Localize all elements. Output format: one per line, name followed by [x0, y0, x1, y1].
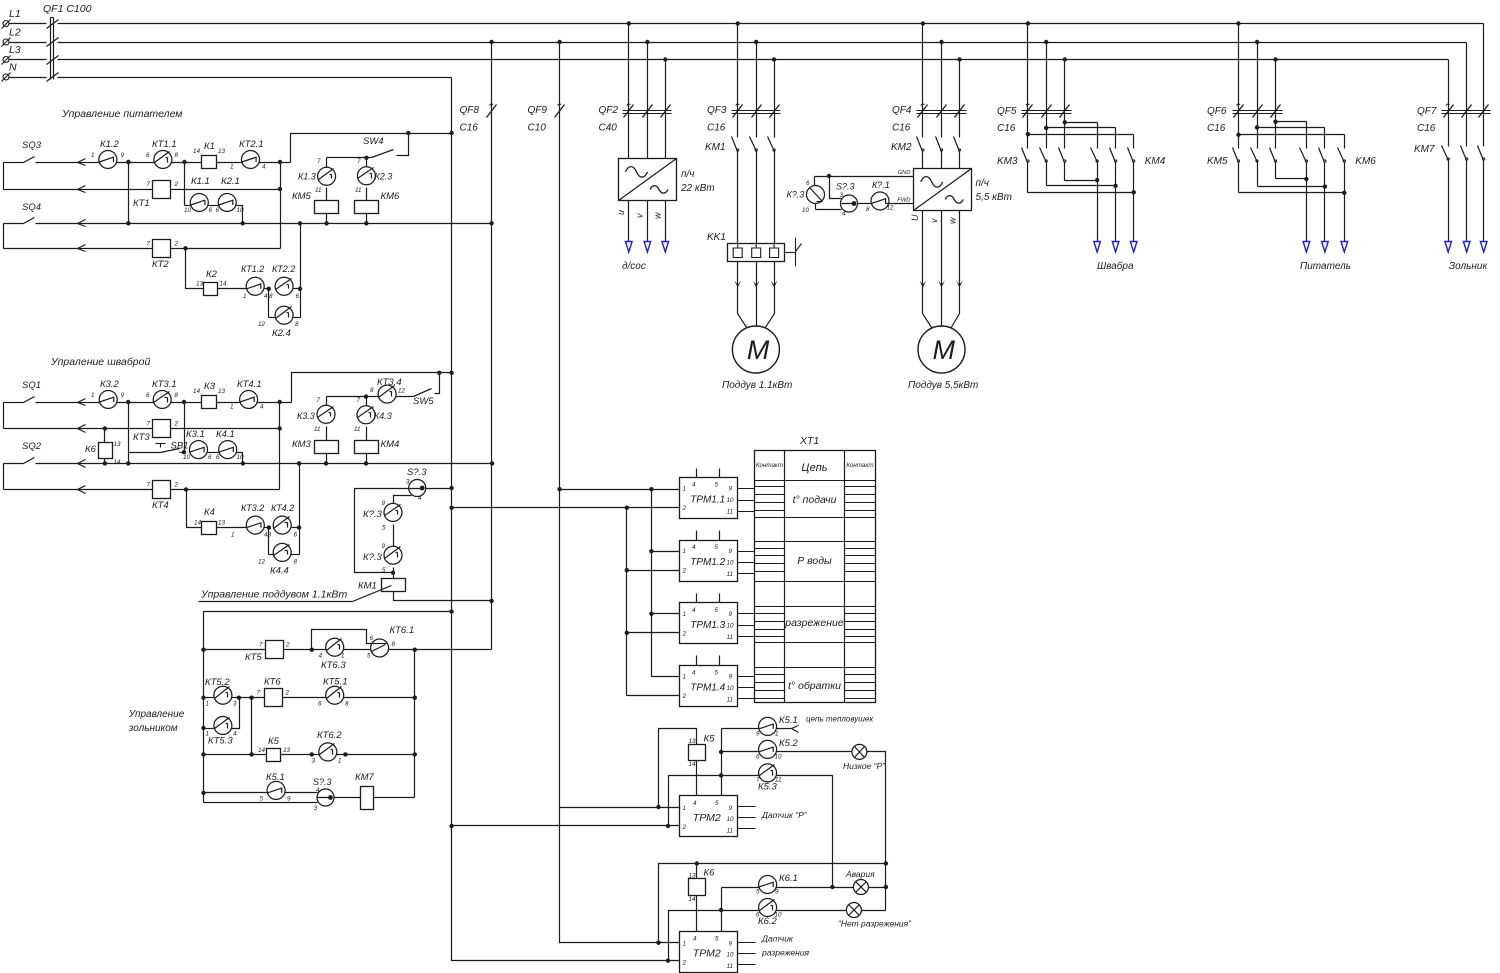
svg-text:L3: L3 [9, 44, 21, 56]
svg-text:6: 6 [756, 912, 760, 919]
svg-text:SQ3: SQ3 [22, 140, 42, 151]
svg-text:6: 6 [756, 754, 760, 761]
svg-text:7: 7 [317, 158, 321, 165]
svg-text:9: 9 [121, 392, 125, 399]
svg-text:ТРМ1.1: ТРМ1.1 [690, 495, 725, 506]
svg-text:10: 10 [727, 685, 735, 692]
svg-text:д/сос: д/сос [622, 261, 646, 272]
svg-text:9: 9 [729, 611, 733, 618]
svg-text:5: 5 [382, 567, 386, 574]
svg-text:10: 10 [727, 560, 735, 567]
svg-text:К4: К4 [204, 507, 215, 518]
svg-text:C16: C16 [1207, 123, 1226, 134]
svg-text:7: 7 [317, 397, 321, 404]
svg-text:13: 13 [218, 388, 226, 395]
svg-text:1: 1 [683, 941, 687, 948]
svg-text:12: 12 [258, 321, 266, 328]
svg-text:KM4: KM4 [1145, 156, 1166, 167]
svg-text:C40: C40 [599, 123, 618, 134]
svg-text:4: 4 [418, 495, 422, 502]
svg-text:SB1: SB1 [171, 441, 189, 452]
svg-text:КТ1.1: КТ1.1 [152, 139, 177, 150]
svg-text:8: 8 [269, 293, 273, 300]
svg-text:14: 14 [114, 459, 122, 466]
svg-text:6: 6 [296, 293, 300, 300]
svg-text:9: 9 [729, 548, 733, 555]
svg-text:11: 11 [354, 426, 361, 433]
svg-text:КТ4.1: КТ4.1 [237, 379, 262, 390]
svg-text:7: 7 [357, 158, 361, 165]
svg-text:Авария: Авария [845, 869, 875, 879]
svg-text:SQ1: SQ1 [22, 380, 41, 391]
svg-text:12: 12 [398, 388, 406, 395]
svg-text:13: 13 [196, 281, 204, 288]
svg-text:11: 11 [727, 634, 734, 641]
svg-text:1: 1 [683, 673, 687, 680]
svg-text:QF1 C100: QF1 C100 [43, 3, 92, 15]
svg-text:C16: C16 [892, 123, 911, 134]
svg-text:7: 7 [147, 482, 151, 489]
svg-text:6: 6 [146, 392, 150, 399]
svg-text:КМ5: КМ5 [292, 191, 312, 202]
svg-text:14: 14 [689, 896, 697, 903]
svg-text:9: 9 [382, 500, 386, 507]
svg-text:9: 9 [382, 543, 386, 550]
svg-text:QF6: QF6 [1207, 106, 1227, 117]
svg-text:C16: C16 [1417, 123, 1436, 134]
svg-text:KM6: KM6 [1355, 156, 1376, 167]
svg-text:К?.3: К?.3 [363, 509, 383, 520]
svg-text:4: 4 [264, 293, 268, 300]
svg-text:2: 2 [285, 642, 290, 649]
svg-text:разрежение: разрежение [784, 617, 844, 629]
svg-text:К2: К2 [206, 269, 218, 280]
svg-text:11: 11 [775, 777, 782, 784]
svg-text:KM3: KM3 [997, 156, 1018, 167]
svg-text:S?.3: S?.3 [407, 467, 427, 478]
svg-text:7: 7 [259, 642, 263, 649]
svg-text:Зольник: Зольник [1449, 261, 1488, 272]
svg-text:14: 14 [193, 388, 201, 395]
svg-text:5,5 кВт: 5,5 кВт [976, 192, 1012, 203]
svg-text:6: 6 [806, 180, 810, 187]
svg-text:QF8: QF8 [460, 105, 480, 116]
svg-text:C16: C16 [460, 123, 479, 134]
svg-text:S?.3: S?.3 [313, 777, 332, 787]
svg-text:2: 2 [682, 824, 687, 831]
svg-text:QF3: QF3 [707, 105, 727, 116]
svg-text:КТ2: КТ2 [152, 259, 169, 270]
svg-text:4: 4 [842, 211, 846, 218]
svg-text:6: 6 [209, 207, 213, 214]
svg-text:L1: L1 [9, 8, 21, 20]
svg-text:5: 5 [715, 800, 719, 807]
svg-text:К6: К6 [704, 868, 716, 879]
svg-text:4: 4 [693, 800, 697, 807]
svg-text:Низкое “Р”: Низкое “Р” [843, 761, 886, 771]
svg-text:10: 10 [183, 454, 191, 461]
svg-text:К4.4: К4.4 [270, 566, 289, 577]
svg-text:К2.3: К2.3 [375, 172, 393, 182]
svg-text:6: 6 [216, 207, 220, 214]
svg-text:К3.3: К3.3 [297, 411, 315, 421]
svg-text:5: 5 [715, 607, 719, 614]
svg-text:КТ3.4: КТ3.4 [377, 377, 402, 388]
svg-text:9: 9 [121, 152, 125, 159]
svg-text:КТ1.2: КТ1.2 [241, 264, 264, 274]
svg-text:2: 2 [682, 630, 687, 637]
svg-text:KM1: KM1 [705, 142, 726, 153]
svg-text:10: 10 [727, 497, 735, 504]
svg-text:QF7: QF7 [1417, 106, 1437, 117]
svg-text:КТ6.1: КТ6.1 [390, 625, 415, 636]
svg-text:КМ1: КМ1 [358, 581, 377, 592]
svg-text:2: 2 [682, 505, 687, 512]
svg-text:К1.3: К1.3 [298, 172, 316, 182]
svg-text:10: 10 [802, 207, 810, 214]
svg-text:5: 5 [715, 544, 719, 551]
svg-text:2: 2 [174, 482, 179, 489]
svg-text:8: 8 [370, 387, 374, 394]
svg-text:2: 2 [682, 693, 687, 700]
svg-text:КМ7: КМ7 [355, 772, 375, 783]
svg-text:КТ5.3: КТ5.3 [208, 736, 233, 747]
svg-text:“Нет разрежения”: “Нет разрежения” [838, 919, 912, 929]
svg-text:9: 9 [729, 673, 733, 680]
svg-text:К5: К5 [268, 736, 280, 747]
svg-text:11: 11 [727, 827, 734, 834]
svg-text:10: 10 [727, 816, 735, 823]
svg-text:w: w [948, 217, 958, 224]
svg-text:QF9: QF9 [528, 105, 548, 116]
svg-text:1: 1 [341, 653, 345, 660]
svg-text:разрежения: разрежения [761, 948, 810, 958]
svg-text:К6.1: К6.1 [779, 873, 798, 884]
svg-text:цепь тепловушек: цепь тепловушек [806, 715, 874, 724]
svg-text:Упраление шваброй: Упраление шваброй [50, 356, 150, 368]
svg-text:Поддув 5,5кВт: Поддув 5,5кВт [908, 380, 978, 391]
svg-text:4: 4 [262, 164, 266, 171]
svg-text:КТ5: КТ5 [245, 652, 262, 663]
svg-text:4: 4 [693, 936, 697, 943]
svg-text:1: 1 [230, 404, 234, 411]
svg-text:9: 9 [775, 889, 779, 896]
svg-text:КТ5.2: КТ5.2 [205, 677, 230, 688]
svg-text:ТРМ2: ТРМ2 [693, 948, 721, 960]
svg-text:КТ3: КТ3 [133, 432, 150, 443]
svg-text:12: 12 [258, 559, 266, 566]
svg-text:8: 8 [345, 701, 349, 708]
svg-text:5: 5 [715, 936, 719, 943]
svg-text:QF5: QF5 [997, 106, 1017, 117]
svg-text:КТ3.1: КТ3.1 [152, 379, 177, 390]
svg-text:К?.1: К?.1 [872, 180, 890, 190]
svg-text:4: 4 [260, 404, 264, 411]
svg-text:5: 5 [367, 653, 371, 660]
svg-text:7: 7 [756, 777, 760, 784]
svg-text:GND: GND [898, 170, 911, 176]
svg-text:t° подачи: t° подачи [793, 494, 837, 506]
svg-text:9: 9 [756, 731, 760, 738]
svg-text:КТ4.2: КТ4.2 [271, 503, 294, 513]
svg-text:w: w [653, 212, 663, 219]
svg-text:10: 10 [184, 207, 192, 214]
svg-text:КТ6.2: КТ6.2 [317, 730, 342, 741]
svg-text:1: 1 [683, 486, 687, 493]
svg-text:п/ч: п/ч [976, 178, 989, 189]
svg-text:К5.1: К5.1 [266, 772, 285, 783]
svg-text:1: 1 [91, 152, 95, 159]
svg-text:К2.4: К2.4 [272, 328, 291, 339]
svg-text:К5.1: К5.1 [779, 715, 798, 726]
svg-text:10: 10 [775, 754, 783, 761]
svg-text:КМ3: КМ3 [292, 439, 312, 450]
svg-text:К4.3: К4.3 [374, 411, 392, 421]
svg-text:14: 14 [258, 747, 266, 754]
svg-text:К1: К1 [204, 141, 215, 152]
svg-text:4: 4 [692, 669, 696, 676]
svg-text:ТРМ2: ТРМ2 [693, 812, 721, 824]
svg-text:S?.3: S?.3 [836, 182, 855, 192]
svg-text:КТ6.3: КТ6.3 [321, 660, 346, 671]
svg-text:10: 10 [775, 912, 783, 919]
svg-text:К3: К3 [204, 381, 216, 392]
svg-text:КТ6: КТ6 [264, 677, 281, 688]
svg-text:КМ4: КМ4 [381, 439, 400, 450]
svg-text:1: 1 [683, 611, 687, 618]
svg-text:Швабра: Швабра [1097, 260, 1134, 272]
svg-text:9: 9 [729, 805, 733, 812]
svg-text:t° обратки: t° обратки [788, 680, 841, 692]
svg-text:2: 2 [285, 690, 290, 697]
svg-text:14: 14 [194, 520, 202, 527]
svg-text:4: 4 [692, 482, 696, 489]
svg-text:9: 9 [287, 796, 291, 803]
svg-text:К3.1: К3.1 [186, 429, 205, 440]
svg-text:Управление поддувом 1.1кВт: Управление поддувом 1.1кВт [200, 589, 347, 601]
svg-text:QF2: QF2 [599, 105, 619, 116]
svg-text:7: 7 [147, 181, 151, 188]
svg-text:КМ6: КМ6 [381, 191, 401, 202]
svg-text:22 кВт: 22 кВт [680, 183, 715, 194]
svg-text:1: 1 [338, 758, 342, 765]
svg-text:3: 3 [312, 758, 316, 765]
svg-text:2: 2 [682, 960, 687, 967]
svg-text:7: 7 [357, 397, 361, 404]
svg-text:6: 6 [146, 152, 150, 159]
svg-text:Управление питателем: Управление питателем [61, 108, 182, 120]
svg-text:ТРМ1.3: ТРМ1.3 [690, 620, 725, 631]
svg-text:КТ2.1: КТ2.1 [239, 139, 264, 150]
svg-text:7: 7 [147, 421, 151, 428]
svg-text:14: 14 [220, 281, 228, 288]
svg-text:u: u [616, 210, 626, 215]
svg-text:Датчик: Датчик [761, 934, 794, 944]
svg-text:13: 13 [218, 520, 226, 527]
svg-text:9: 9 [729, 486, 733, 493]
svg-text:L2: L2 [9, 27, 21, 39]
svg-text:Контакт: Контакт [846, 462, 873, 469]
svg-text:10: 10 [237, 207, 245, 214]
svg-text:SW5: SW5 [413, 396, 434, 407]
svg-text:11: 11 [727, 509, 734, 516]
svg-text:8: 8 [392, 641, 396, 648]
svg-text:5: 5 [260, 796, 264, 803]
svg-text:Р воды: Р воды [797, 555, 832, 567]
svg-text:КТ4: КТ4 [152, 500, 169, 511]
svg-text:QF4: QF4 [892, 105, 912, 116]
svg-text:11: 11 [314, 426, 321, 433]
svg-text:N: N [9, 62, 17, 74]
svg-text:4: 4 [316, 787, 320, 794]
svg-text:ТРМ1.4: ТРМ1.4 [690, 682, 725, 693]
svg-text:SW4: SW4 [363, 136, 384, 147]
svg-text:5: 5 [715, 669, 719, 676]
svg-text:2: 2 [174, 181, 179, 188]
svg-text:KK1: KK1 [707, 232, 726, 243]
svg-text:6: 6 [370, 635, 374, 642]
svg-text:8: 8 [295, 321, 299, 328]
svg-text:КТ2.2: КТ2.2 [272, 264, 295, 274]
svg-text:11: 11 [355, 187, 362, 194]
svg-text:К?.3: К?.3 [363, 552, 383, 563]
svg-text:Датчик “Р”: Датчик “Р” [761, 810, 808, 820]
svg-text:14: 14 [689, 761, 697, 768]
svg-text:Контакт: Контакт [756, 462, 783, 469]
svg-text:4: 4 [319, 653, 323, 660]
svg-text:К4.1: К4.1 [216, 429, 235, 440]
svg-text:8: 8 [294, 559, 298, 566]
svg-text:7: 7 [147, 241, 151, 248]
svg-text:8: 8 [175, 392, 179, 399]
svg-text:13: 13 [218, 148, 226, 155]
svg-text:9: 9 [729, 941, 733, 948]
svg-text:Цепь: Цепь [801, 462, 827, 474]
svg-text:8: 8 [175, 152, 179, 159]
svg-text:3: 3 [314, 805, 318, 812]
svg-text:13: 13 [689, 738, 697, 745]
svg-text:4: 4 [692, 607, 696, 614]
svg-text:2: 2 [682, 568, 687, 575]
svg-text:1: 1 [231, 532, 235, 539]
svg-text:C16: C16 [997, 123, 1016, 134]
svg-text:КТ5.1: КТ5.1 [323, 677, 348, 688]
svg-text:M: M [747, 335, 770, 365]
svg-text:зольником: зольником [128, 723, 178, 734]
svg-text:1: 1 [683, 548, 687, 555]
svg-text:FWD: FWD [897, 198, 910, 204]
svg-text:5: 5 [382, 525, 386, 532]
svg-text:п/ч: п/ч [681, 169, 694, 180]
svg-text:KM7: KM7 [1414, 144, 1435, 155]
svg-text:6: 6 [208, 454, 212, 461]
svg-text:3: 3 [233, 701, 237, 708]
svg-text:11: 11 [315, 187, 322, 194]
svg-text:10: 10 [727, 952, 735, 959]
svg-text:КТ1: КТ1 [133, 198, 150, 209]
svg-text:13: 13 [283, 747, 291, 754]
svg-text:ТРМ1.2: ТРМ1.2 [690, 557, 725, 568]
svg-text:7: 7 [257, 690, 261, 697]
svg-text:12: 12 [887, 205, 895, 212]
svg-text:SQ4: SQ4 [22, 202, 41, 213]
svg-text:SQ2: SQ2 [22, 441, 42, 452]
svg-text:XT1: XT1 [799, 435, 819, 447]
svg-text:4: 4 [692, 544, 696, 551]
svg-text:К6: К6 [85, 444, 97, 455]
svg-text:6: 6 [318, 701, 322, 708]
svg-text:К2.1: К2.1 [221, 176, 240, 187]
svg-text:2: 2 [174, 421, 179, 428]
svg-text:К5.2: К5.2 [779, 738, 799, 749]
svg-text:11: 11 [727, 696, 734, 703]
svg-text:KM5: KM5 [1207, 156, 1228, 167]
svg-text:1: 1 [206, 731, 210, 738]
svg-text:10: 10 [727, 622, 735, 629]
svg-text:6: 6 [294, 532, 298, 539]
svg-text:14: 14 [193, 148, 201, 155]
svg-text:v: v [929, 218, 939, 223]
svg-text:M: M [933, 335, 956, 365]
svg-text:5: 5 [756, 889, 760, 896]
svg-text:К3.2: К3.2 [100, 379, 120, 390]
svg-text:6: 6 [216, 454, 220, 461]
svg-text:13: 13 [689, 873, 697, 880]
svg-text:Питатель: Питатель [1300, 261, 1351, 272]
svg-text:C16: C16 [707, 123, 726, 134]
svg-text:KM2: KM2 [891, 142, 912, 153]
svg-text:10: 10 [237, 454, 245, 461]
svg-text:К1.2: К1.2 [100, 139, 120, 150]
svg-text:1: 1 [243, 293, 247, 300]
svg-text:К?.3: К?.3 [787, 190, 805, 200]
svg-text:2: 2 [174, 241, 179, 248]
svg-text:11: 11 [727, 571, 734, 578]
svg-text:1: 1 [206, 701, 210, 708]
svg-text:1: 1 [775, 731, 779, 738]
svg-text:11: 11 [727, 963, 734, 970]
svg-text:U: U [910, 214, 920, 221]
svg-text:1: 1 [91, 392, 95, 399]
svg-text:4: 4 [233, 731, 237, 738]
svg-text:1: 1 [230, 164, 234, 171]
svg-text:C10: C10 [528, 123, 547, 134]
svg-text:1: 1 [683, 805, 687, 812]
svg-text:3: 3 [840, 192, 844, 199]
svg-text:3: 3 [406, 479, 410, 486]
svg-text:5: 5 [715, 482, 719, 489]
svg-text:К1.1: К1.1 [191, 176, 210, 187]
svg-text:К5: К5 [704, 734, 716, 745]
svg-text:8: 8 [866, 206, 870, 213]
svg-text:Управление: Управление [128, 709, 185, 720]
svg-text:13: 13 [114, 441, 122, 448]
svg-text:КТ3.2: КТ3.2 [241, 503, 264, 513]
svg-text:Поддув 1.1кВт: Поддув 1.1кВт [722, 380, 792, 391]
svg-text:v: v [635, 213, 645, 218]
